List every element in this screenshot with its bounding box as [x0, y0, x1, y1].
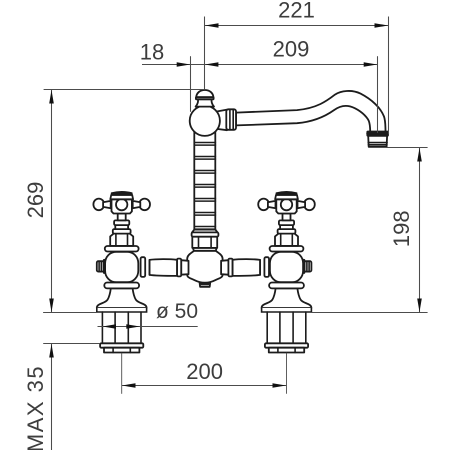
svg-text:221: 221 — [278, 0, 315, 22]
svg-text:269: 269 — [23, 182, 48, 219]
svg-text:ø 50: ø 50 — [156, 300, 198, 323]
svg-text:209: 209 — [273, 37, 310, 62]
svg-text:200: 200 — [186, 359, 223, 384]
svg-text:18: 18 — [140, 39, 164, 64]
svg-text:MAX 35: MAX 35 — [23, 365, 48, 450]
svg-text:198: 198 — [389, 210, 414, 247]
